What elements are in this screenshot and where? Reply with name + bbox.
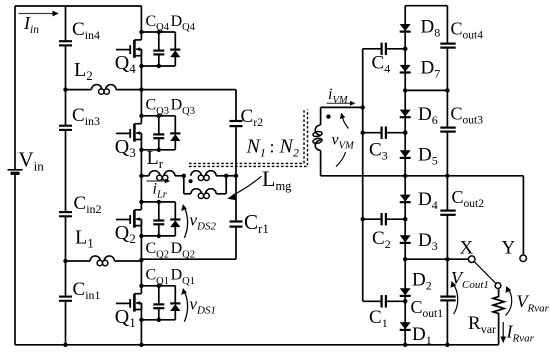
transistor Q3 bbox=[116, 124, 141, 142]
node transformer left bbox=[182, 174, 186, 178]
wire chain segment 4 bbox=[140, 219, 142, 294]
winding primary N1 bbox=[191, 171, 216, 181]
arrow VRvar bbox=[506, 286, 512, 316]
diode D2 bbox=[400, 288, 411, 296]
wire Q2 cell bottom bbox=[141, 235, 175, 237]
resistor Rvar bbox=[493, 289, 504, 345]
label D4 bbox=[418, 189, 438, 212]
label Q2 gate bbox=[115, 222, 136, 246]
label DQ3 bbox=[171, 97, 195, 117]
arrow Lmg pointer bbox=[227, 176, 261, 200]
terminal Y bbox=[520, 255, 527, 262]
node diode column bbox=[403, 299, 407, 303]
label Lmg bbox=[262, 166, 292, 193]
label VCout1 bbox=[451, 268, 489, 291]
wire Q4 cell bottom bbox=[141, 65, 175, 67]
label D3 bbox=[418, 230, 438, 253]
label CQ4 bbox=[146, 13, 170, 33]
node chain-bottom bbox=[139, 343, 143, 347]
label Rvar bbox=[468, 313, 496, 336]
arrow vDS1 bbox=[181, 288, 187, 322]
wire secondary bottom bbox=[321, 175, 406, 177]
wire primary right bbox=[216, 175, 236, 177]
switch blade bbox=[474, 262, 496, 284]
winding secondary N2 bbox=[313, 107, 323, 175]
capacitor Cout2 bbox=[440, 211, 455, 260]
capacitor C4 bbox=[363, 43, 408, 55]
node Q2 drain bbox=[139, 200, 143, 204]
diode DQ3 bbox=[170, 116, 180, 150]
wire Q1 cell bottom bbox=[141, 319, 175, 321]
wire input bus seg3 bbox=[65, 261, 67, 296]
capacitor C3 bbox=[361, 127, 408, 139]
node Q1 source bbox=[139, 318, 143, 322]
capacitor Cr1 bbox=[230, 222, 243, 227]
label Cout4 bbox=[451, 19, 484, 42]
label iLr bbox=[153, 181, 168, 201]
node diode column bbox=[403, 343, 407, 347]
node bus-L1 bbox=[63, 259, 67, 263]
wire chain segment 2 bbox=[140, 49, 142, 123]
capacitor Cout1 bbox=[440, 297, 455, 345]
capacitor Cin2 bbox=[59, 212, 72, 261]
svg-text:Y: Y bbox=[502, 238, 516, 259]
diode DQ2 bbox=[170, 202, 180, 236]
node Cr column bbox=[234, 174, 238, 178]
diode D1 bbox=[400, 322, 411, 330]
capacitor CQ3 bbox=[153, 114, 164, 152]
wire node to Cr1 bbox=[235, 176, 237, 222]
wire L2 left bbox=[66, 89, 92, 91]
label D1 bbox=[412, 324, 432, 347]
wire output bus seg3 bbox=[446, 176, 448, 211]
diode DQ1 bbox=[170, 286, 180, 320]
arrow vDS2 bbox=[181, 204, 187, 238]
label Cin4 bbox=[72, 19, 100, 42]
label IRvar bbox=[506, 322, 535, 345]
node secondary-column bbox=[361, 105, 365, 109]
wire cap column bbox=[362, 49, 364, 301]
label C3 bbox=[369, 140, 388, 163]
diode D3 bbox=[400, 235, 411, 243]
node outbus-bottom bbox=[445, 343, 449, 347]
diode DQ4 bbox=[170, 32, 180, 66]
capacitor CQ1 bbox=[153, 284, 164, 322]
label vDS2 bbox=[190, 210, 217, 232]
node diode column bbox=[403, 174, 407, 178]
label C4 bbox=[372, 53, 391, 76]
label VRvar bbox=[517, 292, 550, 315]
label L1 bbox=[75, 227, 94, 251]
arrow IRvar bbox=[500, 322, 506, 343]
label Vin bbox=[19, 148, 45, 174]
node diode column bbox=[403, 217, 407, 221]
capacitor Cin4 bbox=[59, 41, 72, 89]
node Q2 source bbox=[139, 234, 143, 238]
wire top-left rail bbox=[15, 5, 141, 7]
label L2 bbox=[74, 59, 93, 83]
wire output bus seg1 bbox=[446, 6, 448, 44]
capacitor Cout3 bbox=[440, 128, 455, 176]
label D5 bbox=[418, 145, 438, 168]
node bus-L2 bbox=[63, 87, 67, 91]
label Cr1 bbox=[244, 210, 269, 236]
switch pole bbox=[495, 283, 501, 289]
capacitor C1 bbox=[363, 295, 408, 307]
label N1:N2 bbox=[246, 136, 299, 160]
label D8 bbox=[421, 17, 441, 40]
label Cr2 bbox=[241, 106, 264, 129]
arrow vVM lower bbox=[336, 152, 346, 167]
arrow iVM bbox=[327, 101, 356, 106]
label Cout3 bbox=[451, 104, 484, 127]
label Cin3 bbox=[72, 105, 100, 128]
node Xrow-outbus bbox=[445, 257, 449, 261]
node link-outbus bbox=[445, 88, 449, 92]
wire input bus seg2 bbox=[65, 90, 67, 126]
diode D4 bbox=[400, 195, 411, 203]
node L2-chain bbox=[139, 87, 143, 91]
arrow vVM upper bbox=[340, 113, 349, 129]
wire Q3 cell top bbox=[141, 115, 175, 117]
polarity dot secondary bbox=[326, 114, 330, 118]
svg-text::: : bbox=[270, 137, 275, 157]
wire Q3 cell bottom bbox=[141, 149, 175, 151]
label DQ2 bbox=[171, 240, 195, 260]
label D6 bbox=[418, 104, 438, 127]
diode D5 bbox=[400, 150, 411, 158]
label D2 bbox=[412, 270, 432, 293]
wire chain segment 5 bbox=[140, 303, 142, 345]
label CQ3 bbox=[146, 97, 170, 117]
label CQ2 bbox=[146, 240, 170, 260]
core dashed lines bbox=[189, 110, 308, 167]
label vVM bbox=[332, 132, 356, 152]
label Q3 gate bbox=[115, 136, 136, 160]
label Lr bbox=[147, 147, 164, 171]
capacitor C2 bbox=[361, 213, 408, 225]
inductor Lr bbox=[149, 171, 175, 181]
wire Cr1 return bbox=[141, 227, 236, 259]
node Q4 drain bbox=[139, 30, 143, 34]
diode D8 bbox=[400, 24, 411, 32]
wire L1 right bbox=[115, 260, 142, 262]
inductor L2 bbox=[92, 85, 117, 95]
node Q3 source bbox=[139, 148, 143, 152]
node Q4 source bbox=[139, 64, 143, 68]
label Cin2 bbox=[74, 193, 102, 216]
capacitor Cr2 bbox=[230, 121, 243, 126]
wire secondary top bbox=[321, 106, 363, 108]
wire output bus seg4 bbox=[446, 259, 448, 296]
svg-text:X: X bbox=[460, 238, 474, 259]
node Q3 drain bbox=[139, 114, 143, 118]
label DQ4 bbox=[171, 13, 196, 33]
diode D6 bbox=[400, 110, 411, 118]
label Iin bbox=[23, 13, 39, 36]
wire chain segment 3 bbox=[140, 133, 142, 210]
label vDS1 bbox=[190, 294, 217, 316]
wire L2 right bbox=[116, 89, 141, 91]
label C1 bbox=[369, 307, 388, 330]
transistor Q2 bbox=[116, 210, 141, 228]
label CQ1 bbox=[146, 267, 170, 287]
label Y bbox=[502, 238, 516, 259]
polarity dot primary bbox=[189, 179, 193, 183]
capacitor CQ4 bbox=[153, 30, 164, 68]
label D7 bbox=[421, 58, 441, 81]
wire Y drop bbox=[447, 176, 523, 255]
wire top-right rail bbox=[405, 5, 447, 7]
wire Q1 cell top bbox=[141, 285, 175, 287]
capacitor Cin3 bbox=[59, 126, 72, 212]
node diode column bbox=[403, 257, 407, 261]
wire D7-D6 link bbox=[405, 89, 447, 91]
label C2 bbox=[372, 228, 391, 251]
transistor Q1 bbox=[116, 294, 141, 312]
node diode column bbox=[403, 47, 407, 51]
terminal X bbox=[468, 256, 475, 263]
wire Lr right bbox=[175, 175, 184, 177]
wire Lr left bbox=[141, 175, 149, 177]
label Cout1 bbox=[411, 297, 444, 320]
wire input bus seg1 bbox=[65, 6, 67, 41]
wire X row bbox=[405, 258, 468, 260]
wire chain segment 1 bbox=[140, 6, 142, 40]
capacitor CQ2 bbox=[153, 200, 164, 238]
wire L1 left bbox=[66, 260, 91, 262]
inductor Lmg loop bbox=[184, 176, 226, 199]
label iVM bbox=[328, 86, 349, 106]
wire bottom rail bbox=[15, 344, 499, 346]
node Q1 drain bbox=[139, 284, 143, 288]
node Lr-chain bbox=[139, 174, 143, 178]
capacitor Cout4 bbox=[440, 44, 455, 91]
wire diode column bbox=[404, 6, 406, 345]
capacitor Cin1 bbox=[59, 297, 72, 345]
node L1-chain bbox=[139, 258, 143, 262]
node diode column bbox=[403, 131, 407, 135]
battery Vin bbox=[8, 6, 23, 345]
transistor Q4 bbox=[116, 40, 141, 58]
wire Q4 cell top bbox=[141, 31, 175, 33]
wire output bus seg2 bbox=[446, 90, 448, 127]
arrow Iin bbox=[19, 11, 59, 17]
arrow VCout1 bbox=[451, 281, 458, 314]
node bus-bottom bbox=[63, 343, 67, 347]
label Q4 gate bbox=[115, 52, 136, 76]
label Cin1 bbox=[73, 279, 101, 302]
diode D7 bbox=[400, 65, 411, 73]
label Q1 gate bbox=[115, 306, 136, 330]
wire Cr2 to node bbox=[235, 126, 237, 176]
wire Q2 cell top bbox=[141, 201, 175, 203]
arrow iLr bbox=[147, 179, 171, 184]
inductor L1 bbox=[90, 256, 115, 266]
wire row2 to Cr2 bbox=[141, 90, 236, 121]
node diode column bbox=[403, 88, 407, 92]
wire mid link bbox=[405, 175, 447, 177]
label Cout2 bbox=[452, 187, 485, 210]
label X bbox=[460, 238, 474, 259]
node mid-outbus bbox=[445, 174, 449, 178]
node transformer right bbox=[224, 174, 228, 178]
label DQ1 bbox=[171, 267, 195, 287]
